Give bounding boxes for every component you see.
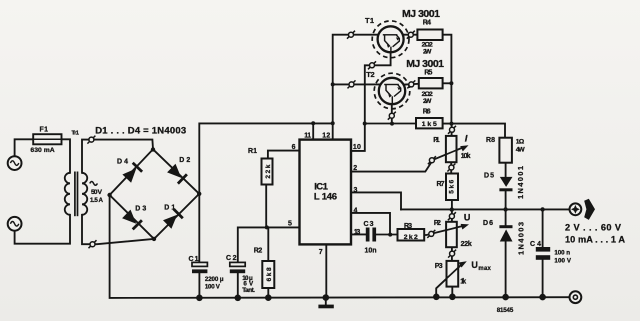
svg-text:2Ω2: 2Ω2: [422, 91, 433, 98]
capacitor C2: [230, 262, 245, 273]
node rail P3: [449, 294, 456, 301]
svg-text:2W: 2W: [423, 98, 432, 105]
svg-text:C3: C3: [364, 221, 374, 228]
svg-text:R4: R4: [423, 20, 431, 27]
svg-text:U: U: [471, 260, 478, 270]
capacitor C3: [366, 228, 376, 242]
node pin below P1: [447, 164, 455, 172]
node D5 D6 output junction: [503, 207, 507, 211]
svg-text:100 V: 100 V: [554, 258, 571, 265]
potentiometer P3: [447, 261, 467, 287]
node R6 right junction: [450, 122, 454, 126]
resistor R5: [419, 78, 443, 88]
svg-text:P3: P3: [435, 263, 443, 270]
wire T1 emitter path down to pin 10: [351, 52, 391, 151]
svg-text:R6: R6: [423, 108, 431, 115]
svg-text:7: 7: [319, 249, 323, 256]
wire C3 to R3 node: [376, 234, 398, 236]
resistor R7: [446, 174, 458, 201]
wire P3 bottom to rail: [451, 287, 453, 297]
svg-text:I: I: [465, 133, 468, 144]
node pin12 tap: [331, 121, 335, 125]
svg-text:2Ω2: 2Ω2: [422, 41, 433, 48]
node rail ground: [323, 294, 330, 301]
wire R7 to P2: [451, 200, 453, 222]
node rail P3 wiper: [433, 294, 440, 301]
svg-text:10 mA . . . 1 A: 10 mA . . . 1 A: [565, 235, 625, 245]
node C3 R3 pin4 junction: [388, 233, 392, 237]
wire AC1 to fuse: [15, 139, 34, 156]
node T2 base tap: [331, 82, 335, 86]
wire P1 to R7: [450, 162, 452, 173]
node bridge top vertex: [151, 147, 155, 151]
diode D6: [499, 225, 512, 241]
op-amp U1 : IC1 L146 box: [300, 140, 352, 245]
wire pin 3 to output node: [351, 192, 401, 209]
resistor R6: [416, 118, 443, 128]
wire pin 11 drop: [312, 123, 314, 139]
wire minus rail from bridge left vertex across bottom: [110, 195, 570, 298]
svg-text:100 n: 100 n: [554, 250, 570, 257]
svg-text:3: 3: [354, 187, 358, 194]
wire D6 to rail: [505, 242, 507, 298]
wire C4 top: [542, 209, 544, 247]
wire output line to plus terminal: [401, 208, 570, 210]
svg-text:P1: P1: [433, 137, 439, 144]
svg-text:13: 13: [354, 229, 360, 236]
svg-text:630 mA: 630 mA: [30, 147, 54, 154]
wire pin 4 down to R3 node: [351, 213, 390, 235]
svg-text:10: 10: [353, 144, 361, 151]
wire R6 right to R8 drop: [443, 124, 505, 138]
wire C1 bottom to rail: [198, 273, 200, 298]
svg-text:max: max: [478, 266, 491, 272]
node P1 wiper pin: [428, 156, 436, 164]
svg-text:22k: 22k: [265, 164, 272, 178]
svg-text:2k2: 2k2: [404, 234, 418, 241]
wire plus node: bridge right vertex up and rail to pins 11/12: [199, 123, 332, 262]
wire fuse to primary top: [62, 139, 71, 173]
transformer Tr1: [65, 172, 88, 217]
svg-text:L 146: L 146: [314, 192, 337, 203]
node T2 collector pin: [407, 80, 415, 88]
wire P2 to P3: [451, 247, 453, 261]
diode D5: [499, 177, 512, 191]
node rail C4: [539, 294, 546, 301]
svg-text:R2: R2: [254, 247, 263, 254]
wire pin 6 to R1 top: [268, 151, 300, 159]
svg-text:Tant.: Tant.: [242, 287, 255, 294]
wire T1 collector out to R4: [403, 34, 417, 36]
wire T2 out to R5: [404, 83, 419, 86]
svg-text:D1 . . . D4 = 1N4003: D1 . . . D4 = 1N4003: [95, 126, 186, 137]
svg-text:2200 μ: 2200 μ: [205, 276, 224, 283]
svg-text:22k: 22k: [461, 241, 472, 248]
node C4 top junction: [540, 207, 544, 211]
wire pin 7 to rail: [325, 244, 327, 297]
svg-text:4: 4: [354, 207, 358, 214]
svg-text:12: 12: [322, 132, 330, 139]
potentiometer P1: [446, 136, 469, 162]
diode D1: [163, 209, 183, 229]
svg-text:R7: R7: [437, 181, 445, 188]
wire secondary bottom to bridge bottom vertex: [82, 215, 154, 244]
svg-text:2: 2: [353, 165, 357, 172]
svg-text:5k6: 5k6: [449, 179, 456, 193]
wire pin 2 to P1 wiper: [351, 160, 433, 172]
wire ground stub: [325, 298, 327, 305]
node R7 bottom output junction: [450, 207, 454, 211]
svg-text:10k: 10k: [461, 153, 471, 160]
svg-text:2W: 2W: [423, 48, 432, 55]
wire R1 bottom to pin5 node: [265, 185, 267, 228]
svg-text:50 V: 50 V: [91, 189, 102, 196]
svg-text:1k5: 1k5: [422, 121, 437, 128]
svg-text:R5: R5: [424, 69, 432, 76]
svg-text:D5: D5: [484, 173, 494, 180]
node plus output terminal: [570, 199, 596, 220]
svg-text:MJ 3001: MJ 3001: [406, 58, 444, 70]
wire P1 wiper arrow line: [433, 147, 464, 160]
wire bridge edge D1: [154, 194, 199, 239]
svg-text:1 Ω: 1 Ω: [516, 138, 525, 145]
svg-text:C1: C1: [189, 256, 199, 263]
potentiometer P2: [446, 222, 469, 247]
svg-text:Tr1: Tr1: [72, 131, 80, 137]
node T2 base pin: [348, 80, 356, 88]
svg-text:T1: T1: [365, 16, 374, 25]
wire P3 wiper to rail: [436, 263, 463, 297]
diode D3: [122, 210, 142, 230]
node T1 collector pin: [407, 31, 415, 39]
node rail C1: [196, 295, 203, 302]
wiper line through P1: [446, 150, 457, 154]
node pin above P2: [448, 212, 456, 220]
node P2 wiper pin: [427, 230, 435, 238]
wire D5 to output line: [505, 191, 507, 209]
node pin11 tap: [311, 121, 315, 125]
wire C4 bottom: [542, 260, 544, 297]
svg-text:1.5 A: 1.5 A: [90, 197, 104, 204]
AC source terminal bottom: [8, 217, 22, 231]
node R5 right junction: [449, 81, 453, 85]
label ~ 50V 1.5A: [90, 182, 98, 186]
svg-text:D6: D6: [483, 220, 493, 227]
wire base column pin12 up to T1 base: [333, 35, 383, 140]
svg-text:MJ 3001: MJ 3001: [402, 8, 440, 20]
wire T2 stem to rail: [391, 104, 393, 123]
wire bridge edge D2: [153, 149, 199, 194]
resistor R3: [398, 229, 425, 241]
node rail R2: [265, 294, 272, 301]
wire bridge edge D3: [110, 195, 154, 239]
wire R5 right to column: [443, 82, 452, 84]
transistor Q2 : T2 MJ3001: [374, 73, 410, 109]
node T2 stem tap: [390, 122, 394, 126]
node pin10 tap: [363, 122, 367, 126]
svg-text:R1: R1: [248, 148, 257, 155]
node bridge left vertex: [107, 193, 111, 197]
node bridge bottom vertex: [152, 237, 156, 241]
node rail D6: [502, 294, 509, 301]
svg-text:R8: R8: [486, 137, 495, 144]
svg-text:R3: R3: [404, 223, 412, 230]
svg-text:6: 6: [292, 144, 296, 151]
diode D4: [122, 163, 142, 183]
node T1 base pin: [347, 31, 355, 39]
wire R3 to P2 wiper: [424, 226, 464, 235]
svg-text:81545: 81545: [497, 307, 514, 314]
wire bridge edge D4: [110, 149, 153, 195]
svg-text:11: 11: [304, 132, 311, 139]
wire T2 base: [333, 83, 385, 85]
svg-text:10n: 10n: [365, 247, 377, 254]
svg-text:5: 5: [288, 220, 292, 227]
wire output line to D6: [505, 209, 507, 225]
wire R8 bottom to D5: [505, 163, 507, 177]
wire R4 right down right column: [443, 35, 452, 124]
ground: [318, 305, 333, 309]
wire R2 top stub: [267, 227, 269, 261]
resistor R4: [417, 30, 442, 41]
wire primary bottom to AC2: [15, 215, 70, 244]
svg-text:T2: T2: [366, 70, 375, 79]
svg-text:1k: 1k: [460, 279, 466, 286]
resistor R1: [262, 159, 273, 185]
svg-text:2 V . . . 60 V: 2 V . . . 60 V: [565, 223, 622, 233]
node rail C2: [235, 295, 242, 302]
node pin above P1: [448, 126, 456, 134]
svg-text:F1: F1: [40, 126, 49, 133]
node pin between P2 P3: [448, 250, 456, 258]
wire secondary top to bridge top vertex: [82, 140, 153, 173]
AC source terminal top: [8, 156, 22, 170]
node T2 stem pin: [388, 112, 396, 120]
wire pin 5 to C2: [238, 227, 300, 262]
svg-text:6k8: 6k8: [266, 267, 273, 281]
svg-text:4 W: 4 W: [516, 147, 526, 154]
node secondary top pin: [87, 136, 95, 144]
node minus output terminal: [570, 291, 582, 303]
node T1 emitter pin: [368, 61, 376, 69]
svg-text:100 V: 100 V: [205, 283, 221, 290]
diode D2: [167, 164, 187, 184]
wire pin 13 to C3: [351, 233, 366, 235]
transistor Q1 : T1 MJ3001: [372, 21, 409, 58]
resistor R8: [499, 138, 512, 163]
wire R2 bottom to rail: [267, 288, 269, 298]
svg-text:U: U: [464, 213, 471, 223]
wire rail pin10-node to R6: [365, 123, 416, 125]
node R1 R2 pin5 junction: [265, 225, 269, 229]
node secondary bottom pin: [89, 240, 97, 248]
svg-text:P2: P2: [434, 220, 441, 227]
capacitor C1: [192, 262, 207, 273]
wire column above P1: [451, 124, 453, 136]
capacitor C4: [536, 247, 550, 260]
node bridge right vertex: [197, 192, 201, 196]
fuse F1: [33, 134, 61, 144]
resistor R2: [262, 261, 274, 288]
wire C2 bottom to rail: [237, 273, 239, 298]
